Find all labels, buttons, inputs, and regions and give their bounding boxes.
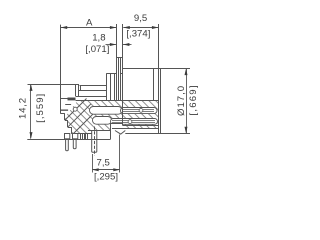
svg-text:[,669]: [,669]: [188, 84, 199, 115]
svg-text:1,8: 1,8: [92, 32, 105, 43]
svg-text:14,2: 14,2: [17, 97, 28, 119]
svg-text:Ø17,0: Ø17,0: [176, 85, 187, 116]
svg-text:[,071]: [,071]: [85, 44, 109, 55]
svg-text:[,374]: [,374]: [126, 28, 150, 39]
svg-text:[,559]: [,559]: [35, 93, 46, 123]
svg-text:9,5: 9,5: [134, 13, 147, 24]
svg-text:7,5: 7,5: [97, 158, 110, 169]
svg-text:[,295]: [,295]: [94, 172, 118, 183]
svg-text:A: A: [86, 17, 93, 28]
